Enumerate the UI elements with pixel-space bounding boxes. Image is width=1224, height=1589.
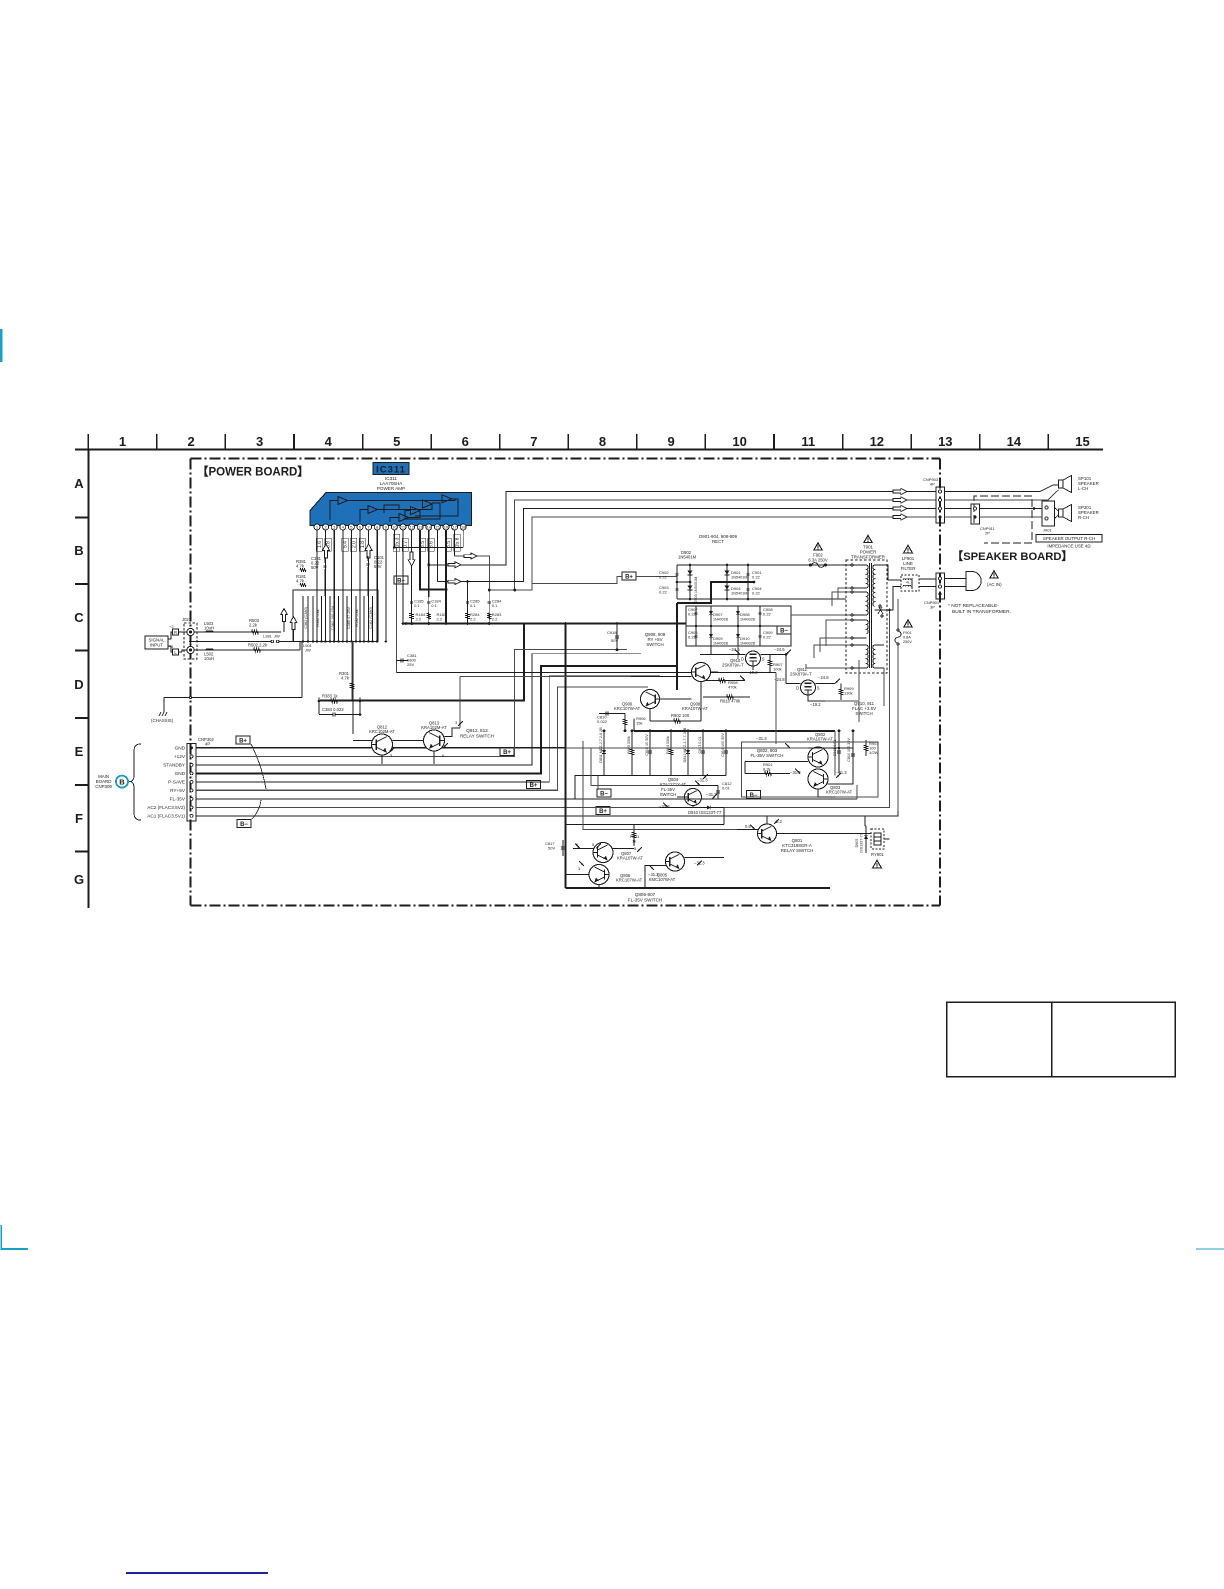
svg-text:INPUT: INPUT xyxy=(150,643,163,648)
svg-text:SWITCH: SWITCH xyxy=(855,711,872,716)
svg-text:−24.8: −24.8 xyxy=(774,677,785,682)
power board dash-dot border xyxy=(191,457,941,459)
svg-text:0.1: 0.1 xyxy=(414,603,420,608)
svg-text:15.8: 15.8 xyxy=(455,537,461,547)
wire thick mid bus xyxy=(634,730,835,732)
svg-text:100k: 100k xyxy=(773,667,782,672)
svg-text:10uH: 10uH xyxy=(204,626,214,631)
svg-text:KRC107W-AT: KRC107W-AT xyxy=(614,706,641,711)
transistor Q804 xyxy=(685,789,702,806)
svg-text:A: A xyxy=(74,476,84,491)
svg-text:1: 1 xyxy=(119,434,126,449)
svg-text:* NOT REPLACEABLE-: * NOT REPLACEABLE- xyxy=(948,603,999,609)
wire staircase extra verticals xyxy=(583,741,737,830)
label B- bottom right xyxy=(747,791,761,799)
svg-text:−31.3: −31.3 xyxy=(697,778,708,783)
wire thick B-minus L xyxy=(320,624,524,701)
grid ruler row ticks and letters xyxy=(74,476,89,887)
svg-text:−24.8: −24.8 xyxy=(818,675,829,680)
svg-text:GND: GND xyxy=(175,771,186,776)
capacitor C185 and C184 network xyxy=(410,597,447,625)
svg-text:B−: B− xyxy=(240,822,248,828)
wire rect bottom rail xyxy=(677,598,846,600)
transistor Q802 xyxy=(808,747,828,767)
svg-text:D904: D904 xyxy=(731,586,741,591)
svg-text:15: 15 xyxy=(1075,434,1089,449)
svg-text:IC311: IC311 xyxy=(376,464,406,475)
warning triangle transformer xyxy=(864,535,872,542)
capacitor C918 xyxy=(616,624,618,650)
svg-text:470k: 470k xyxy=(728,685,737,690)
svg-text:FILTER: FILTER xyxy=(901,566,916,571)
wire AC2 run xyxy=(196,640,890,807)
svg-text:−1: −1 xyxy=(169,644,174,649)
wire thick mid drop xyxy=(633,719,635,731)
svg-text:KRC107W-AT: KRC107W-AT xyxy=(826,790,853,795)
svg-text:15.3: 15.3 xyxy=(394,537,400,547)
wire input upper channel xyxy=(194,631,281,633)
svg-text:1N5401M: 1N5401M xyxy=(678,555,697,560)
svg-text:Q805-807: Q805-807 xyxy=(635,892,656,897)
wire transformer tap runs xyxy=(755,565,851,668)
svg-text:4: 4 xyxy=(325,434,333,449)
svg-text:8.2k: 8.2k xyxy=(763,767,771,772)
svg-text:R902 100: R902 100 xyxy=(671,713,690,718)
svg-text:C815 10 50V: C815 10 50V xyxy=(645,734,649,756)
svg-text:4P: 4P xyxy=(930,482,935,487)
svg-text:S: S xyxy=(762,656,765,661)
svg-text:SWITCH: SWITCH xyxy=(646,642,663,647)
svg-text:FL-35V SWITCH: FL-35V SWITCH xyxy=(628,898,662,903)
svg-text:250V: 250V xyxy=(903,640,912,644)
svg-text:FL-35V SWITCH: FL-35V SWITCH xyxy=(751,753,784,758)
svg-text:D908: D908 xyxy=(740,612,750,617)
svg-text:2.2: 2.2 xyxy=(416,617,422,622)
svg-text:KRA107W-AT: KRA107W-AT xyxy=(807,737,833,742)
revision table xyxy=(947,1002,1176,1077)
wire J001 to SP201 xyxy=(1055,508,1059,512)
svg-text:0.22: 0.22 xyxy=(763,635,772,640)
resistor R503 xyxy=(252,630,259,634)
wire Q802 subcircuit loop xyxy=(742,742,879,797)
arrow up into pin 7 xyxy=(365,544,372,558)
svg-text:3P: 3P xyxy=(930,605,935,610)
fuse F902 xyxy=(808,553,828,568)
FET Q911 xyxy=(801,680,816,695)
wire CNP911 to J001 xyxy=(980,508,1043,510)
svg-text:2.0: 2.0 xyxy=(351,541,357,548)
inductor L502 xyxy=(206,649,213,650)
svg-text:E: E xyxy=(75,744,84,759)
svg-text:FL-35V: FL-35V xyxy=(170,797,186,802)
svg-text:J021: J021 xyxy=(182,617,192,622)
svg-text:−19.2: −19.2 xyxy=(747,670,758,675)
svg-text:−31.3: −31.3 xyxy=(648,872,659,877)
farm verticals with parts xyxy=(599,727,728,776)
svg-text:16: 16 xyxy=(444,525,449,530)
svg-text:D910 ISS133T-77: D910 ISS133T-77 xyxy=(688,810,722,815)
svg-text:AC1 (FLAC3.5V1): AC1 (FLAC3.5V1) xyxy=(147,814,185,819)
resistor R909 xyxy=(840,684,842,701)
svg-text:−31.3: −31.3 xyxy=(706,792,717,797)
transistor Q813 xyxy=(424,730,445,751)
leader arcs from labels xyxy=(251,744,266,789)
label B- mid xyxy=(597,789,611,797)
svg-text:12: 12 xyxy=(870,434,884,449)
svg-text:C385 47 25V: C385 47 25V xyxy=(347,606,351,629)
wire Q911 links xyxy=(786,683,801,685)
svg-text:RY901: RY901 xyxy=(871,852,884,857)
svg-text:0.1: 0.1 xyxy=(431,603,437,608)
svg-text:B−: B− xyxy=(600,791,608,797)
label B+ mid2 xyxy=(527,781,541,789)
capacitor C812 xyxy=(717,786,719,800)
svg-text:(CHASSIS): (CHASSIS) xyxy=(151,718,174,723)
wire GND bus to thick vertical xyxy=(196,747,566,749)
svg-text:17: 17 xyxy=(452,525,457,530)
wire Q801 links xyxy=(737,829,758,831)
wire rail y799 xyxy=(575,798,857,800)
svg-text:10: 10 xyxy=(732,434,746,449)
svg-text:1N5401M: 1N5401M xyxy=(731,592,747,596)
page crop mark cyan bottom-left corner xyxy=(1,1225,28,1249)
svg-text:R904 330k: R904 330k xyxy=(666,736,670,754)
svg-text:C362 100 15V: C362 100 15V xyxy=(331,605,335,630)
wire transformer right tap down xyxy=(883,668,885,706)
inductor L503 xyxy=(206,631,213,632)
thermal switch symbol xyxy=(878,607,883,614)
connector J021 xyxy=(182,617,197,659)
svg-text:15: 15 xyxy=(435,525,440,530)
svg-text:C384 0.022: C384 0.022 xyxy=(322,707,344,712)
svg-text:1N4002B: 1N4002B xyxy=(740,618,756,622)
svg-text:TRANSFORMER: TRANSFORMER xyxy=(851,555,885,560)
svg-text:0.22: 0.22 xyxy=(752,591,761,596)
arrow on speaker wire 1 xyxy=(448,562,461,568)
wire IC pin drops right group xyxy=(393,530,463,673)
svg-text:1.8: 1.8 xyxy=(360,541,366,548)
wire to SP101 xyxy=(945,485,1059,492)
svg-text:5.4: 5.4 xyxy=(343,541,349,548)
connector CNP911 xyxy=(971,504,996,536)
warning triangle fuse xyxy=(814,543,822,550)
svg-text:D: D xyxy=(741,656,744,661)
connector CNP302 xyxy=(187,737,214,821)
arrow on speaker wire 3 xyxy=(448,579,461,585)
svg-text:SWITCH: SWITCH xyxy=(660,792,677,797)
grid ruler top line xyxy=(75,449,1103,451)
svg-text:L-CH: L-CH xyxy=(1078,486,1088,491)
svg-text:1N4002B: 1N4002B xyxy=(713,618,729,622)
svg-text:0.8A: 0.8A xyxy=(903,636,911,640)
svg-text:14: 14 xyxy=(1007,434,1022,449)
wire transformer to filter xyxy=(884,565,901,580)
page footer blue rule xyxy=(126,1572,268,1574)
wire long gray runs xyxy=(195,747,197,749)
relay RY901 xyxy=(871,829,884,849)
CNP302 pin name labels xyxy=(147,746,186,819)
svg-text:−19.2: −19.2 xyxy=(810,702,821,707)
capacitor cluster verticals xyxy=(303,596,373,642)
svg-text:50V: 50V xyxy=(548,846,555,851)
svg-text:C182 (C380): C182 (C380) xyxy=(369,606,373,628)
svg-text:−2: −2 xyxy=(169,624,174,629)
warning triangle relay xyxy=(873,860,882,868)
wire thick B- bus horizontal xyxy=(403,623,686,625)
speaker SP101 xyxy=(1059,476,1072,493)
wire input links xyxy=(168,632,173,639)
svg-text:D: D xyxy=(796,685,799,690)
transistor Q807 xyxy=(593,843,613,863)
wire right risers xyxy=(858,660,860,700)
wire RY+5V run xyxy=(196,687,648,790)
svg-text:0.22: 0.22 xyxy=(659,575,668,580)
connector CNP901 xyxy=(924,573,945,610)
cluster rotated value labels xyxy=(304,605,373,630)
svg-text:D905: D905 xyxy=(855,839,859,848)
svg-text:RY+5V: RY+5V xyxy=(170,788,186,793)
svg-text:P-SAVE: P-SAVE xyxy=(168,780,185,785)
wire GND2 run xyxy=(196,666,676,773)
capacitor C810 xyxy=(599,713,625,715)
arrow on speaker wire 2 xyxy=(464,553,477,559)
transistor Q906 xyxy=(641,690,660,709)
svg-text:R382 6.8k: R382 6.8k xyxy=(316,609,320,626)
svg-text:4P: 4P xyxy=(205,742,210,747)
wire gray loop right xyxy=(531,584,533,597)
svg-text:CNP309: CNP309 xyxy=(95,784,112,789)
svg-text:1N4002B: 1N4002B xyxy=(713,642,729,646)
svg-text:50V: 50V xyxy=(611,638,618,643)
svg-text:0.022: 0.022 xyxy=(597,719,608,724)
svg-text:2: 2 xyxy=(187,434,194,449)
wire speaker out 3 xyxy=(437,509,936,582)
svg-text:15k: 15k xyxy=(636,721,642,726)
rectifier left branch xyxy=(659,564,698,604)
AC plug symbol xyxy=(945,572,982,591)
svg-text:18: 18 xyxy=(461,525,466,530)
svg-text:−24.5: −24.5 xyxy=(729,647,740,652)
cluster junction dots xyxy=(302,640,387,642)
svg-text:B+: B+ xyxy=(239,738,247,744)
svg-text:1/2W: 1/2W xyxy=(869,750,879,755)
IC pin voltage labels xyxy=(316,534,461,551)
svg-text:KRA107W-AT: KRA107W-AT xyxy=(682,706,708,711)
wire mid connections xyxy=(352,642,354,735)
wire rect top rail xyxy=(677,564,808,566)
svg-text:B+: B+ xyxy=(397,578,405,584)
transistor Q806 xyxy=(589,865,609,885)
resistor R903 xyxy=(865,740,867,756)
wire -24.5 rail xyxy=(700,654,727,656)
svg-text:R905 330k: R905 330k xyxy=(627,736,631,754)
wire rail y814 xyxy=(573,815,865,817)
capacitor C101 xyxy=(366,562,369,564)
signal input box xyxy=(145,636,168,649)
transformer T901 windings xyxy=(851,563,884,669)
svg-text:GND: GND xyxy=(175,746,186,751)
svg-text:0.22: 0.22 xyxy=(763,612,772,617)
svg-text:+12V: +12V xyxy=(174,754,186,759)
wire fuse to transformer xyxy=(827,564,846,566)
label B+ rectifier xyxy=(622,572,636,580)
transistor Q803 xyxy=(808,769,828,789)
ground chassis symbol xyxy=(163,708,165,712)
svg-text:0.7: 0.7 xyxy=(403,541,409,548)
svg-text:14: 14 xyxy=(427,525,432,530)
svg-text:0.22: 0.22 xyxy=(752,575,761,580)
svg-text:3: 3 xyxy=(256,434,263,449)
wire speaker out 4 xyxy=(515,517,936,590)
wire P-SAVE run xyxy=(196,676,660,782)
svg-text:−31.3: −31.3 xyxy=(756,736,767,741)
svg-text:R-CH: R-CH xyxy=(1078,515,1089,520)
svg-text:R383 1k: R383 1k xyxy=(322,694,339,699)
transistor Q801 xyxy=(758,824,777,843)
svg-text:25V: 25V xyxy=(407,662,414,667)
svg-text:0.01: 0.01 xyxy=(722,786,731,791)
arrow down from pin 12 xyxy=(408,552,415,566)
wire STANDBY run xyxy=(196,654,641,765)
capacitor C810b vertical xyxy=(852,731,854,774)
svg-text:KMC107W-AT: KMC107W-AT xyxy=(649,877,676,882)
svg-text:B−: B− xyxy=(750,793,758,799)
svg-text:8: 8 xyxy=(599,434,606,449)
svg-text:D812 MTZ-J-7.7-39B: D812 MTZ-J-7.7-39B xyxy=(683,727,687,762)
svg-text:BUILT IN TRANSFORMER.: BUILT IN TRANSFORMER. xyxy=(952,609,1011,615)
op-amp U1 IC311 body xyxy=(310,493,472,526)
svg-text:10: 10 xyxy=(392,525,397,530)
svg-text:7: 7 xyxy=(530,434,537,449)
svg-text:IMPEDANCE USE 4Ω: IMPEDANCE USE 4Ω xyxy=(1047,544,1091,549)
wire mid horizontal long xyxy=(397,672,776,674)
wire thick rect drop xyxy=(676,603,678,690)
svg-text:D901: D901 xyxy=(731,570,741,575)
line filter LF901 body xyxy=(901,575,919,591)
svg-text:9: 9 xyxy=(667,434,674,449)
svg-text:0.1: 0.1 xyxy=(470,603,476,608)
svg-text:2.2: 2.2 xyxy=(492,617,498,622)
warning triangle AC IN xyxy=(990,571,998,578)
svg-text:50V: 50V xyxy=(311,565,319,570)
wire input lower channel xyxy=(194,649,300,651)
wire Q910 links xyxy=(727,654,746,656)
label B- cnp xyxy=(237,820,251,828)
resistor R907 xyxy=(769,655,771,673)
svg-text:B+: B+ xyxy=(599,809,607,815)
wire Q812 links xyxy=(353,740,372,742)
svg-text:10uH: 10uH xyxy=(204,656,214,661)
svg-text:2SK879A-T: 2SK879A-T xyxy=(722,663,744,668)
wire gray bplus feed xyxy=(532,577,622,584)
svg-text:D907: D907 xyxy=(713,612,723,617)
svg-text:−31.3: −31.3 xyxy=(790,770,801,775)
main board brace and node B xyxy=(95,744,141,820)
svg-text:−31.3: −31.3 xyxy=(659,804,670,809)
wire Q804 links xyxy=(682,785,718,787)
svg-text:13: 13 xyxy=(938,434,952,449)
resistor R502 xyxy=(254,648,261,652)
svg-text:D909: D909 xyxy=(713,636,723,641)
svg-text:J001: J001 xyxy=(1043,528,1052,533)
svg-text:AC2 (FLAC3.5V2): AC2 (FLAC3.5V2) xyxy=(147,805,185,810)
warning triangle line filter xyxy=(904,545,913,553)
voltage probe arrows xyxy=(390,650,841,870)
wire chassis run xyxy=(164,697,302,699)
wire FL-35V run xyxy=(196,776,598,799)
speaker board dashed outline xyxy=(974,496,1032,543)
wire input center xyxy=(190,636,192,647)
wire relay links xyxy=(777,833,872,835)
grid ruler left line xyxy=(88,450,90,909)
svg-text:C: C xyxy=(74,610,84,625)
svg-text:2SK879A-T: 2SK879A-T xyxy=(790,672,812,677)
svg-text:B−: B− xyxy=(780,628,788,634)
wire Q802 area rails xyxy=(838,729,841,732)
warning triangle F901 xyxy=(904,620,912,627)
svg-text:【POWER BOARD】: 【POWER BOARD】 xyxy=(197,466,309,479)
wire lower to cluster xyxy=(299,642,301,651)
svg-text:KRC107W-AT: KRC107W-AT xyxy=(616,878,643,883)
label B+ mid xyxy=(500,748,514,756)
svg-text:B+: B+ xyxy=(503,750,511,756)
svg-text:RECT: RECT xyxy=(712,539,724,544)
capacitor C285 and C284 network xyxy=(466,582,502,625)
wire rail y824 xyxy=(566,824,724,826)
label speaker output xyxy=(1036,535,1102,543)
IC U1 pins 1-18 xyxy=(314,524,466,530)
wire AC1 run xyxy=(196,647,898,816)
svg-text:SPEAKER OUTPUT R-CH: SPEAKER OUTPUT R-CH xyxy=(1043,536,1095,541)
svg-text:POWER AMP: POWER AMP xyxy=(377,486,405,491)
grid ruler column ticks and numbers xyxy=(88,434,1089,450)
wire speaker out 1 xyxy=(429,492,936,565)
svg-text:D811 MTZ-J-7.2-6.2B: D811 MTZ-J-7.2-6.2B xyxy=(599,727,603,763)
svg-text:JW: JW xyxy=(305,648,311,653)
wire lv mid rail xyxy=(686,625,791,627)
svg-text:R502 2.2k: R502 2.2k xyxy=(248,643,268,648)
svg-text:4.7k: 4.7k xyxy=(341,676,350,681)
svg-text:2.2: 2.2 xyxy=(437,617,443,622)
svg-text:KRC102M-AT: KRC102M-AT xyxy=(369,729,395,734)
transistor Q812 xyxy=(372,734,393,755)
resistor R301 xyxy=(351,642,353,702)
svg-text:RELAY SWITCH: RELAY SWITCH xyxy=(460,734,494,739)
svg-text:1N4002B: 1N4002B xyxy=(740,642,756,646)
capacitor C381 electrolytic mid xyxy=(397,660,408,662)
svg-text:12: 12 xyxy=(409,525,414,530)
svg-text:50V: 50V xyxy=(374,564,382,569)
svg-text:R: R xyxy=(174,630,177,635)
svg-text:B: B xyxy=(119,777,125,786)
svg-text:B: B xyxy=(74,543,83,558)
arrows near connector CNP903 xyxy=(893,488,907,520)
svg-text:6.3A 250V: 6.3A 250V xyxy=(808,558,828,563)
wire farm bottom rail xyxy=(598,775,726,777)
capacitor cluster box xyxy=(293,590,378,642)
svg-text:2P: 2P xyxy=(985,531,990,536)
transformer dashed enclosure xyxy=(846,560,887,673)
wire Q906 Q908 links xyxy=(660,698,692,700)
svg-text:−31.3: −31.3 xyxy=(836,770,847,775)
svg-text:11: 11 xyxy=(801,434,815,449)
svg-text:1.6: 1.6 xyxy=(317,541,323,548)
page crop mark cyan bottom-right tick xyxy=(1196,1248,1224,1250)
svg-text:C810 100 35V: C810 100 35V xyxy=(847,738,851,762)
connector J001 xyxy=(1042,501,1055,533)
capacitor C381 xyxy=(323,564,326,566)
svg-text:13: 13 xyxy=(418,525,423,530)
